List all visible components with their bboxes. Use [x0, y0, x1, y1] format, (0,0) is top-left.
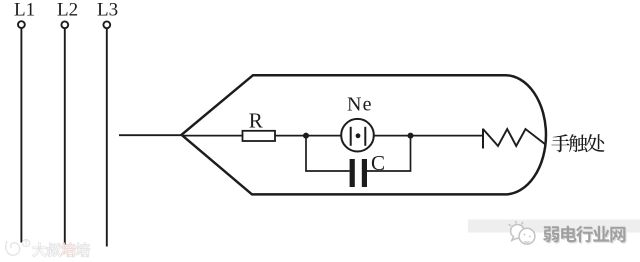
faint watermark text: [33, 243, 62, 257]
svg-text:L1: L1: [14, 0, 35, 21]
node junction right: [408, 133, 414, 139]
wire L3: [106, 28, 108, 246]
wire L2: [64, 28, 66, 244]
wire probe lead: [119, 134, 182, 136]
label 手触处: [551, 134, 604, 152]
tester body outline: [182, 75, 546, 194]
wire tip to resistor: [182, 135, 242, 137]
faint logo bottom-left: [6, 239, 30, 255]
wire resistor to lamp: [275, 135, 342, 137]
wire L1: [20, 28, 22, 242]
watermark gray band: [468, 220, 640, 233]
terminal L2: [61, 21, 68, 28]
terminal L3: [103, 21, 110, 28]
node junction left: [303, 133, 309, 139]
watermark text 弱电行业网: [543, 226, 625, 243]
wire capacitor branch left down: [306, 136, 350, 171]
contact spring: [483, 129, 546, 149]
wire lamp to junction right: [374, 135, 483, 137]
resistor R: [243, 131, 276, 141]
neon lamp Ne: [341, 119, 374, 152]
terminal L1: [18, 21, 25, 28]
capacitor C: [352, 159, 364, 187]
svg-text:Ne: Ne: [347, 94, 373, 116]
watermark icon bubbles: [509, 221, 535, 244]
watermark text 弱电行业网 shadow: [544, 227, 626, 244]
svg-text:L3: L3: [97, 0, 118, 21]
wire capacitor branch right up: [367, 136, 411, 171]
svg-text:L2: L2: [57, 0, 78, 21]
svg-text:R: R: [249, 108, 263, 132]
